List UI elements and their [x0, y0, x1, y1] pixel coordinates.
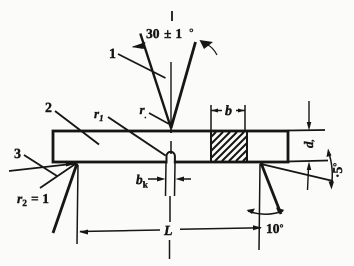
- bottom edge extension right: [288, 161, 328, 162]
- slot centerline segments: [170, 141, 172, 154]
- apex tick through top edge: [170, 122, 172, 133]
- centerline top tick: [171, 11, 173, 21]
- top edge extension right: [288, 129, 325, 132]
- 10 deg arc with arrows: [248, 211, 283, 214]
- svg-text:1: 1: [109, 47, 116, 62]
- 5 deg arc with arrows: [329, 152, 333, 186]
- svg-text:d,: d,: [301, 139, 316, 148]
- dimension bk extension lines: [166, 163, 176, 196]
- dimension bk arrows: [148, 178, 191, 180]
- svg-text:30±1°: 30±1°: [146, 26, 194, 41]
- svg-text:2: 2: [45, 101, 52, 116]
- svg-text:r.: r.: [140, 102, 147, 120]
- svg-text:10°: 10°: [266, 221, 284, 236]
- leader line 2: [55, 111, 99, 145]
- right fan: thick 10 deg ray: [261, 163, 281, 214]
- left fan: horizontal ray: [9, 164, 76, 172]
- dimension L left extension: [77, 165, 78, 244]
- centerline above apex: [170, 62, 172, 127]
- left fan arrow blob: [66, 161, 77, 167]
- dimension L right extension: [259, 164, 260, 250]
- dimension L line with arrows: [80, 228, 261, 232]
- svg-text:L: L: [163, 224, 173, 239]
- right fan: 5 deg ray: [261, 164, 333, 181]
- V-groove right leg: [171, 42, 196, 128]
- dimension d bottom arrow: [308, 168, 309, 190]
- angle 30 deg right arrow with tail: [206, 44, 217, 55]
- dimension b line and arrows: [211, 110, 245, 112]
- leader line r1: [108, 117, 166, 156]
- dimension b extension lines: [211, 105, 245, 131]
- dimension d top arrow: [308, 101, 310, 124]
- svg-text:r2=1: r2=1: [17, 191, 49, 209]
- left fan: leader 3: [24, 155, 57, 176]
- hatched section b: [211, 132, 247, 161]
- svg-text:r1: r1: [94, 106, 104, 123]
- svg-text:b: b: [225, 104, 232, 119]
- specimen body outline: [53, 131, 288, 162]
- leader line 1: [118, 54, 166, 78]
- svg-text:bk: bk: [136, 172, 148, 190]
- left fan: r2 leader ray: [40, 164, 76, 189]
- leader line r apex: [149, 113, 169, 124]
- angle 30 deg left arrow: [133, 44, 145, 47]
- svg-text:3: 3: [14, 147, 21, 162]
- V-groove left leg: [140, 34, 171, 129]
- left fan: thick bevel ray: [53, 164, 77, 234]
- svg-text:·5°: ·5°: [330, 163, 345, 178]
- bottom notch bk (slot with round top): [168, 153, 174, 165]
